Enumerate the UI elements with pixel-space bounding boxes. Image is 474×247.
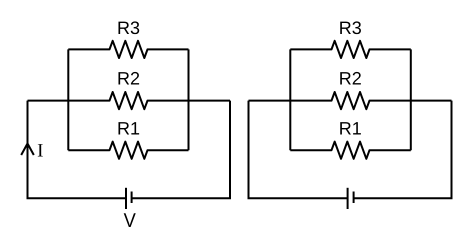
- wire: right circuit outer loop left side and bottom-left: [249, 101, 348, 199]
- svg-text:V: V: [124, 210, 137, 232]
- wire: left circuit inner right vertical bus: [188, 49, 190, 150]
- wire: right circuit inner right vertical bus: [410, 49, 412, 150]
- resistor R3 (right circuit, top branch): [290, 41, 411, 58]
- resistor R1 (left circuit, bottom branch): [68, 142, 188, 159]
- resistor R1 (right circuit, bottom branch): [290, 142, 411, 159]
- wire: right circuit bottom-right and outer loop right side: [354, 101, 452, 199]
- battery V long plate (left circuit): [125, 188, 127, 209]
- svg-text:R2: R2: [339, 69, 362, 89]
- svg-text:R3: R3: [339, 18, 362, 38]
- svg-text:R1: R1: [339, 119, 362, 139]
- svg-text:I: I: [37, 141, 43, 162]
- resistor R3 (left circuit, top branch): [68, 41, 188, 58]
- wire: left circuit inner left vertical bus: [67, 49, 69, 150]
- wire: right circuit inner left vertical bus: [289, 49, 291, 150]
- resistor R2 (left circuit, middle branch spanning outer loop): [28, 92, 231, 109]
- svg-text:R1: R1: [117, 119, 140, 139]
- battery short plate (right circuit): [353, 192, 355, 204]
- svg-text:R3: R3: [117, 18, 140, 38]
- wire: left circuit outer loop left side and bottom-left: [28, 101, 127, 199]
- wire: left circuit bottom-right and outer loop right side: [132, 101, 230, 199]
- current arrow head on left wire (pointing up): [21, 144, 34, 156]
- battery V short plate (left circuit): [131, 192, 133, 204]
- resistor R2 (right circuit, middle branch spanning outer loop): [249, 92, 452, 109]
- svg-text:R2: R2: [117, 69, 140, 89]
- battery long plate (right circuit): [347, 188, 349, 209]
